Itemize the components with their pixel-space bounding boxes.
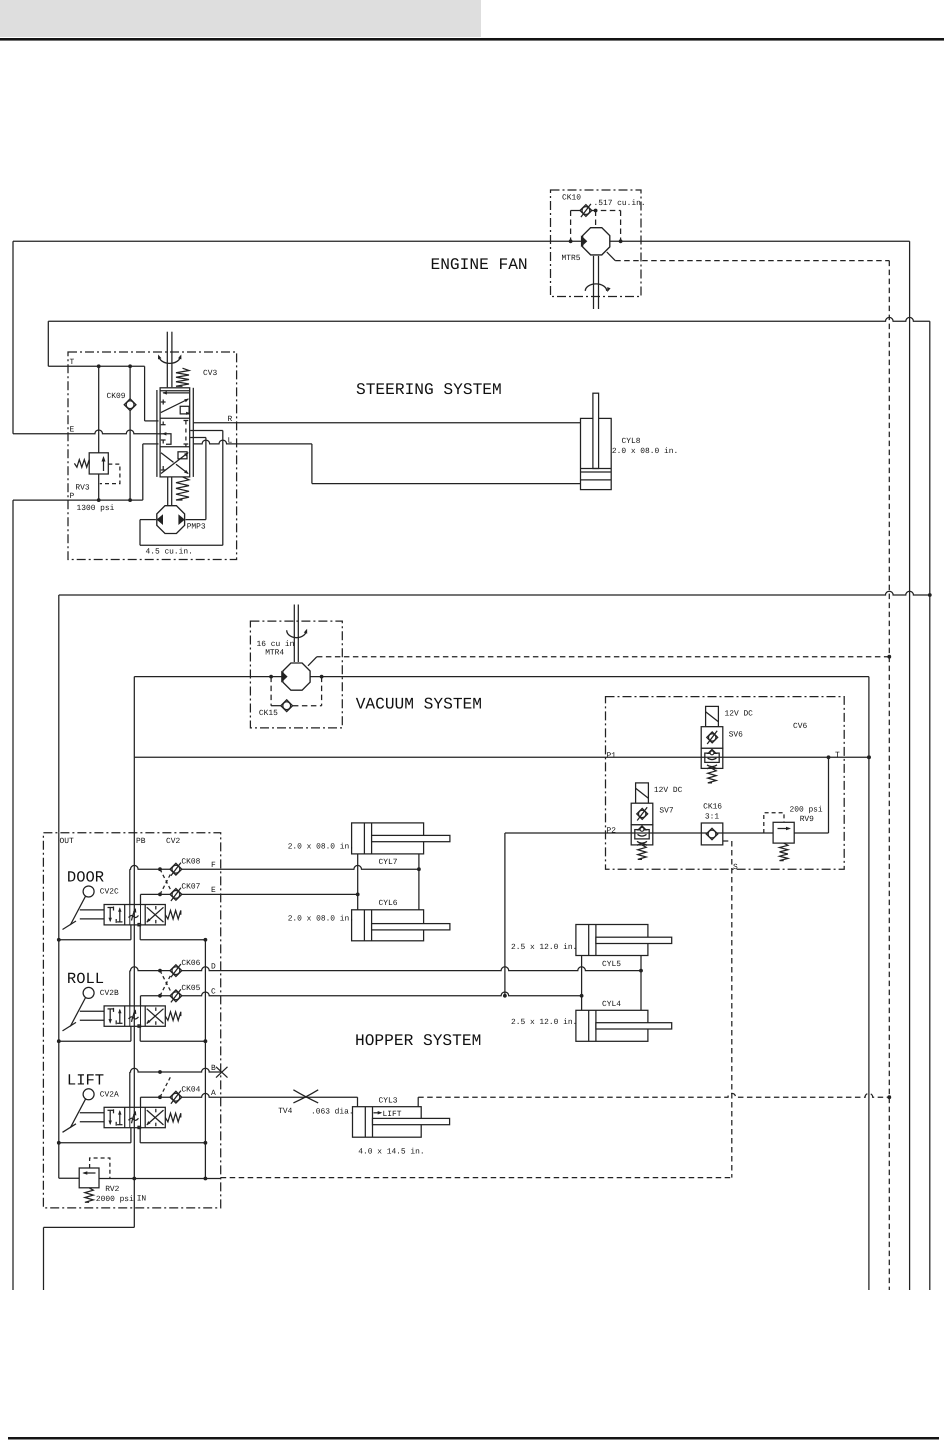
wire: right vertical bus from fan line [909,241,911,1290]
svg-text:2.0 x 08.0 in.: 2.0 x 08.0 in. [288,915,354,924]
svg-text:ROLL: ROLL [67,970,104,988]
svg-text:CK07: CK07 [181,883,200,892]
wire: vacuum motor supply [134,675,869,833]
node P2 [505,757,829,835]
svg-text:C: C [211,988,216,997]
title STEERING SYSTEM [356,381,502,399]
page header gray block [0,0,481,37]
svg-text:CYL5: CYL5 [602,960,621,969]
svg-text:CYL4: CYL4 [602,1000,621,1009]
wire: tank return bus [59,591,930,833]
footer rule [8,1437,939,1440]
node T steering [48,358,158,421]
svg-text:CK09: CK09 [107,392,126,401]
svg-text:ENGINE FAN: ENGINE FAN [431,256,528,274]
svg-text:P2: P2 [607,827,617,836]
svg-text:LIFT: LIFT [67,1071,104,1089]
svg-text:CK10: CK10 [562,194,581,203]
check valve CK15 [259,677,322,718]
motor MTR5 [562,228,611,309]
svg-text:MTR5: MTR5 [562,254,581,263]
cylinder CYL7 [288,823,450,867]
svg-text:4.0 x 14.5 in.: 4.0 x 14.5 in. [358,1148,424,1157]
svg-text:2.5 x 12.0 in.: 2.5 x 12.0 in. [511,943,577,952]
svg-text:CYL3: CYL3 [379,1097,398,1106]
node P steering [13,444,159,1290]
wire: OUT bus in CV2 [58,833,60,1179]
pump PMP3 [146,506,206,557]
enclosure box MTR5 [551,190,642,297]
svg-text:CV2B: CV2B [100,989,119,998]
wire: CV2 internal return bus [204,940,206,1179]
throttle TV4 [278,1090,353,1117]
cylinder CYL6 [288,899,450,941]
wire: pilot S dashed [723,841,738,1178]
svg-text:3:1: 3:1 [705,813,719,822]
check valve CK04 lift port [130,1064,358,1108]
plug X on B port [216,1067,228,1078]
wire: roll section tank row [57,1026,207,1043]
svg-text:2.5 x 12.0 in.: 2.5 x 12.0 in. [511,1018,577,1027]
wire: door section tank row [57,925,207,942]
cylinder CYL4 [511,1000,672,1041]
svg-text:CK05: CK05 [181,984,200,993]
svg-text:12V DC: 12V DC [725,710,754,719]
svg-text:CYL6: CYL6 [379,899,398,908]
node P1 [134,751,871,761]
enclosure box CV6 [606,697,845,870]
svg-text:200 psi: 200 psi [790,806,823,815]
shaft pump drive [168,477,172,505]
wire: RV3 branch [98,366,100,500]
svg-text:T: T [835,751,840,760]
wire: lift section tank row [57,1128,207,1145]
svg-text:CV2A: CV2A [100,1090,119,1099]
wire: pump loop left [140,431,223,546]
svg-text:CK15: CK15 [259,709,278,718]
enclosure box steering valve CV3 [68,352,237,560]
svg-text:.517 cu.in.: .517 cu.in. [594,199,646,208]
svg-text:2000 psi: 2000 psi [96,1195,134,1204]
svg-text:2.0 x 08.0 in.: 2.0 x 08.0 in. [612,447,678,456]
wire: A line into CYL3 [357,1097,359,1107]
wire: motor out vertical bus [867,677,871,1290]
svg-text:CK04: CK04 [181,1085,200,1094]
spring CV3 bottom [176,477,189,500]
svg-text:SV6: SV6 [729,730,743,739]
svg-text:E: E [70,426,75,435]
enclosure box MTR4 [250,621,342,728]
node IN line [99,1177,732,1181]
wire: CYL3 rod-end dashed return [418,1093,889,1106]
svg-text:CV2C: CV2C [100,888,119,897]
wire: PB bus in CV2 [133,833,135,1179]
svg-text:2.0 x 08.0 in.: 2.0 x 08.0 in. [288,843,354,852]
svg-text:1300 psi: 1300 psi [77,504,115,513]
svg-text:A: A [211,1089,216,1098]
svg-text:MTR4: MTR4 [265,649,284,658]
svg-text:RV2: RV2 [105,1185,119,1194]
motor MTR4 [257,605,311,691]
node L steering [194,437,581,484]
svg-text:CYL8: CYL8 [622,437,641,446]
svg-text:CV2: CV2 [166,837,180,846]
port E into CV3 [157,432,171,444]
enclosure box CV2 [43,833,220,1208]
steering column shaft [158,332,181,388]
svg-text:CK08: CK08 [181,857,200,866]
check valve CK09 [107,366,137,500]
wire: MTR4 drain dashed [308,657,889,666]
relief valve RV3 [74,453,120,493]
svg-text:TV4: TV4 [278,1107,292,1116]
header rule [0,38,944,41]
svg-text:CK16: CK16 [703,803,722,812]
svg-text:F: F [211,861,216,870]
check valve CK10 [562,194,646,244]
svg-text:LIFT: LIFT [383,1110,402,1119]
check valve CK08 / CK07 door ports [130,857,421,904]
cylinder CYL3 [353,1097,450,1157]
valve CV2C door section [63,869,181,930]
svg-text:PMP3: PMP3 [187,523,206,532]
svg-text:DOOR: DOOR [67,869,104,887]
title VACUUM SYSTEM [356,696,482,714]
svg-text:T: T [70,358,75,367]
solenoid valve SV6 [701,706,753,783]
svg-text:4.5 cu.in.: 4.5 cu.in. [146,548,193,557]
svg-text:CV3: CV3 [203,369,217,378]
cylinder CYL5 [511,925,672,970]
wire: rightmost vertical bus [928,321,932,1290]
svg-text:D: D [211,962,216,971]
svg-text:VACUUM SYSTEM: VACUUM SYSTEM [356,696,482,714]
valve CV2A lift section [63,1071,181,1132]
svg-text:CK06: CK06 [181,959,200,968]
wire: steering tank return to right bus [48,317,930,366]
relief valve RV9 [764,806,823,861]
relief valve RV2 [59,1158,147,1204]
title ENGINE FAN [431,256,528,274]
svg-text:IN: IN [137,1195,147,1204]
solenoid valve SV7 [631,783,682,860]
wire: CYL7-CYL6 port links [358,854,419,910]
title HOPPER SYSTEM [355,1032,481,1050]
valve CV2B roll section [63,970,181,1031]
svg-text:OUT: OUT [60,837,74,846]
svg-text:SV7: SV7 [659,807,673,816]
svg-text:E: E [211,886,216,895]
valve CV3 steering control [157,369,218,477]
svg-text:HOPPER SYSTEM: HOPPER SYSTEM [355,1032,481,1050]
wire: PB tail to next sheet [44,1179,135,1291]
wire: MTR5 drain (dashed) to right bus [607,252,891,1290]
svg-text:RV9: RV9 [800,815,814,824]
svg-text:STEERING SYSTEM: STEERING SYSTEM [356,381,502,399]
svg-text:12V DC: 12V DC [654,786,683,795]
svg-text:.063 dia.: .063 dia. [311,1108,354,1117]
wire: engine fan supply line [13,240,910,242]
wire: CYL5-CYL4 port links [582,956,641,1011]
node R steering [194,415,581,424]
svg-text:P1: P1 [607,752,617,761]
check valve CK16 [701,803,723,845]
svg-text:RV3: RV3 [75,484,89,493]
node E steering [13,241,157,434]
svg-text:B: B [211,1064,216,1073]
svg-text:CV6: CV6 [793,722,807,731]
svg-text:CYL7: CYL7 [379,858,398,867]
cylinder CYL8 [581,393,679,489]
check valve CK06 / CK05 roll ports [130,959,643,1006]
wire: P2 branch down to C [503,833,507,998]
svg-text:S: S [733,863,738,872]
wire: pump loop right [186,438,206,520]
spring CV3 top [176,368,189,386]
svg-text:PB: PB [136,837,146,846]
